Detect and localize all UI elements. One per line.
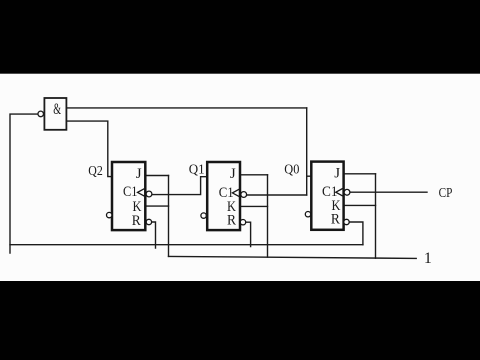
- wire FF1 K: [145, 205, 168, 207]
- wire FF2 JK tie vertical: [267, 175, 269, 257]
- nand output bubble: [38, 111, 44, 117]
- wire FF3 K: [344, 204, 376, 206]
- wire FF1 R drop: [152, 222, 156, 248]
- wire FF1 J: [145, 175, 168, 177]
- FF2 box: [207, 162, 240, 230]
- svg-text:Q1: Q1: [189, 161, 205, 176]
- wire reset bus horizontal: [10, 244, 363, 246]
- FF1 clock bubble: [146, 191, 152, 197]
- wire FF1 JK tie vertical: [168, 176, 170, 257]
- svg-text:1: 1: [424, 250, 432, 267]
- FF1 clock triangle: [138, 189, 145, 196]
- wire FF2 R drop: [246, 222, 251, 246]
- FF1 box: [112, 162, 145, 230]
- svg-text:J: J: [136, 166, 142, 182]
- svg-text:R: R: [331, 212, 340, 228]
- top letterbox bar: [0, 0, 480, 74]
- svg-text:J: J: [230, 166, 236, 182]
- wire nand output to left bus: [10, 114, 38, 253]
- FF3 clock bubble: [344, 189, 350, 195]
- FF2 clock triangle: [232, 189, 239, 196]
- flip-flop FF2 (Q1): [201, 162, 247, 230]
- FF2 R bubble: [240, 220, 245, 225]
- flip-flop FF1 (Q2): [107, 162, 152, 230]
- FF3 box: [311, 162, 343, 230]
- svg-text:C1: C1: [123, 184, 138, 200]
- svg-text:CP: CP: [439, 185, 453, 200]
- svg-text:R: R: [227, 213, 236, 229]
- FF1 R bubble: [146, 219, 151, 224]
- svg-text:J: J: [334, 166, 340, 182]
- svg-text:Q2: Q2: [88, 163, 103, 178]
- FF2 clock bubble: [241, 192, 247, 198]
- wire FF3 JK tie vertical: [375, 174, 377, 258]
- bottom letterbox bar: [0, 281, 480, 360]
- FF2 Qbar bubble: [201, 213, 206, 218]
- wire node Q0 vertical: [306, 108, 308, 195]
- wire nand input2: [66, 121, 112, 177]
- wire FF2 J: [240, 174, 268, 176]
- FF3 clock triangle: [336, 189, 343, 196]
- wire FF3 J: [344, 173, 376, 175]
- nand gate U1 box: [44, 98, 66, 130]
- svg-text:&: &: [53, 101, 61, 118]
- wire FF2 clock to Q0 node: [247, 194, 307, 196]
- wire nand input1 top: [66, 107, 306, 109]
- wire FF2 Q to FF1 clock: [152, 177, 207, 195]
- wire CP input: [350, 191, 427, 193]
- wire logic-1 bus: [169, 256, 417, 258]
- FF1 Qbar bubble: [107, 212, 112, 217]
- FF3 Qbar bubble: [305, 212, 310, 217]
- flip-flop FF3 (Q0): [305, 162, 350, 230]
- FF3 R bubble: [344, 219, 349, 224]
- wire FF3 R drop: [349, 222, 363, 245]
- svg-text:R: R: [132, 213, 141, 229]
- wire Q0 node to FF3 Q pin: [307, 175, 312, 177]
- wire FF2 K: [240, 205, 268, 207]
- svg-text:Q0: Q0: [284, 162, 299, 177]
